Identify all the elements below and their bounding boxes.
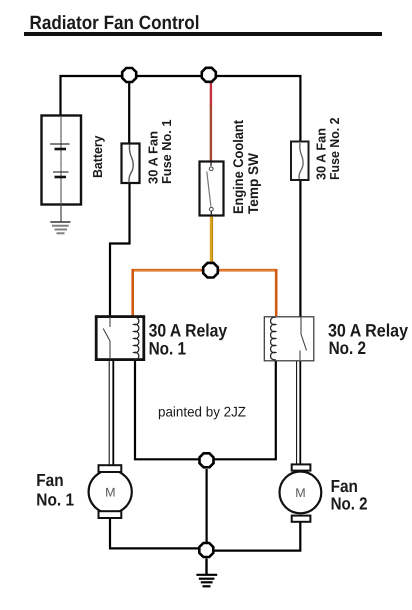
ground symbol bottom line 1 [196,574,217,576]
battery ground lead [60,204,62,222]
fuse F1 element squiggle [129,145,133,183]
wire: fan2 bottom to node4 [214,521,300,551]
wire: fuse1 bottom jog left down to relay1 switch top [110,183,130,316]
svg-text:M: M [295,486,305,500]
fuse F2 box [291,142,309,181]
fan motor M2 bottom cap [292,516,311,522]
wire: node3 right up to relay2 coil [215,361,276,459]
title underline bar [24,32,382,36]
temp switch bottom lead [210,211,212,215]
svg-text:No. 1: No. 1 [36,489,74,509]
red wire: node2 to temp switch [210,83,212,106]
wire: relay2 switch to fan2 double pair [296,361,298,465]
svg-text:Radiator Fan Control: Radiator Fan Control [30,13,200,34]
wire: battery top to node1 to node2 to right drop, down to fuse2 [61,76,301,142]
relay K2 switch top lead [300,317,302,334]
svg-text:Fan: Fan [36,470,63,490]
svg-text:No. 1: No. 1 [149,339,187,359]
temp switch top pin lead [210,162,212,166]
wire: node1 down to fuse1 top [128,83,130,144]
wire: node4 down to ground [205,559,207,575]
node 2 junction octagon [202,68,216,82]
svg-text:Fuse No. 1: Fuse No. 1 [159,120,174,185]
battery ground line 3 [55,229,68,231]
battery inner vertical lead [60,117,62,204]
svg-text:M: M [105,485,115,499]
fan motor M2 top cap [292,464,311,470]
node 2b junction octagon (temp sw to relays) [203,263,218,278]
node 4 junction octagon (fan returns) [199,543,213,557]
wire: relay1 coil down and right to node3 [135,361,199,459]
svg-text:No. 2: No. 2 [331,494,368,514]
wire: relay1 switch to fan1 double pair [108,361,110,466]
svg-text:30 A Relay: 30 A Relay [149,321,228,341]
fan motor M2 circle [280,472,322,514]
relay K1 coil [134,317,139,360]
fan motor M1 top cap [99,465,122,472]
svg-text:Engine Coolant: Engine Coolant [230,120,246,214]
relay K2 coil [271,317,276,360]
fan motor M1 bottom cap [99,511,122,518]
wire: node3 down to node4 [206,469,208,542]
svg-text:Temp SW: Temp SW [245,152,261,214]
svg-text:Battery: Battery [90,135,105,178]
fan motor M1 circle [89,470,132,513]
battery box [42,116,82,205]
fuse F1 box [122,144,140,184]
relay K2 box [264,317,314,361]
node 1 junction octagon [122,68,136,82]
battery cell 1 long plate [50,143,70,145]
ground symbol bottom line 2 [199,578,215,580]
wire: fuse2 bottom down to relay2 switch top [299,180,301,317]
battery cell 2 long plate [53,171,69,173]
orange wire: node2b right to relay2 coil [219,270,277,316]
temp switch blade [207,172,211,207]
battery cell 2 short thick plate [55,176,67,179]
fuse F2 element squiggle [299,143,303,179]
svg-text:No. 2: No. 2 [329,338,367,358]
relay K1 switch top lead [109,317,111,327]
battery ground line 4 [57,232,65,234]
battery cell 1 short thick plate [55,148,67,151]
relay K2 switch bottom lead [299,351,301,361]
battery dashed link [60,152,62,172]
svg-text:Fuse No. 2: Fuse No. 2 [327,118,342,181]
yellow wire: temp switch to node2b [210,216,213,263]
relay K1 switch bottom lead [109,341,111,359]
relay K1 box [96,317,144,360]
ground symbol bottom line 3 [201,581,213,583]
engine coolant temp switch box [200,162,224,216]
battery ground line 2 [52,225,69,227]
temp switch top pin [209,167,213,171]
ground symbol bottom line 4 [203,585,211,587]
temp switch bottom pin [209,207,213,211]
battery ground line 1 [50,221,70,223]
orange wire: node2b left to relay1 coil [133,270,203,316]
relay K1 switch blade [103,329,110,342]
wire: fan1 bottom to node4 [110,518,199,548]
svg-text:painted by 2JZ: painted by 2JZ [158,404,246,420]
relay K2 switch blade [301,334,307,351]
node 3 junction octagon (relay coils) [200,453,214,467]
